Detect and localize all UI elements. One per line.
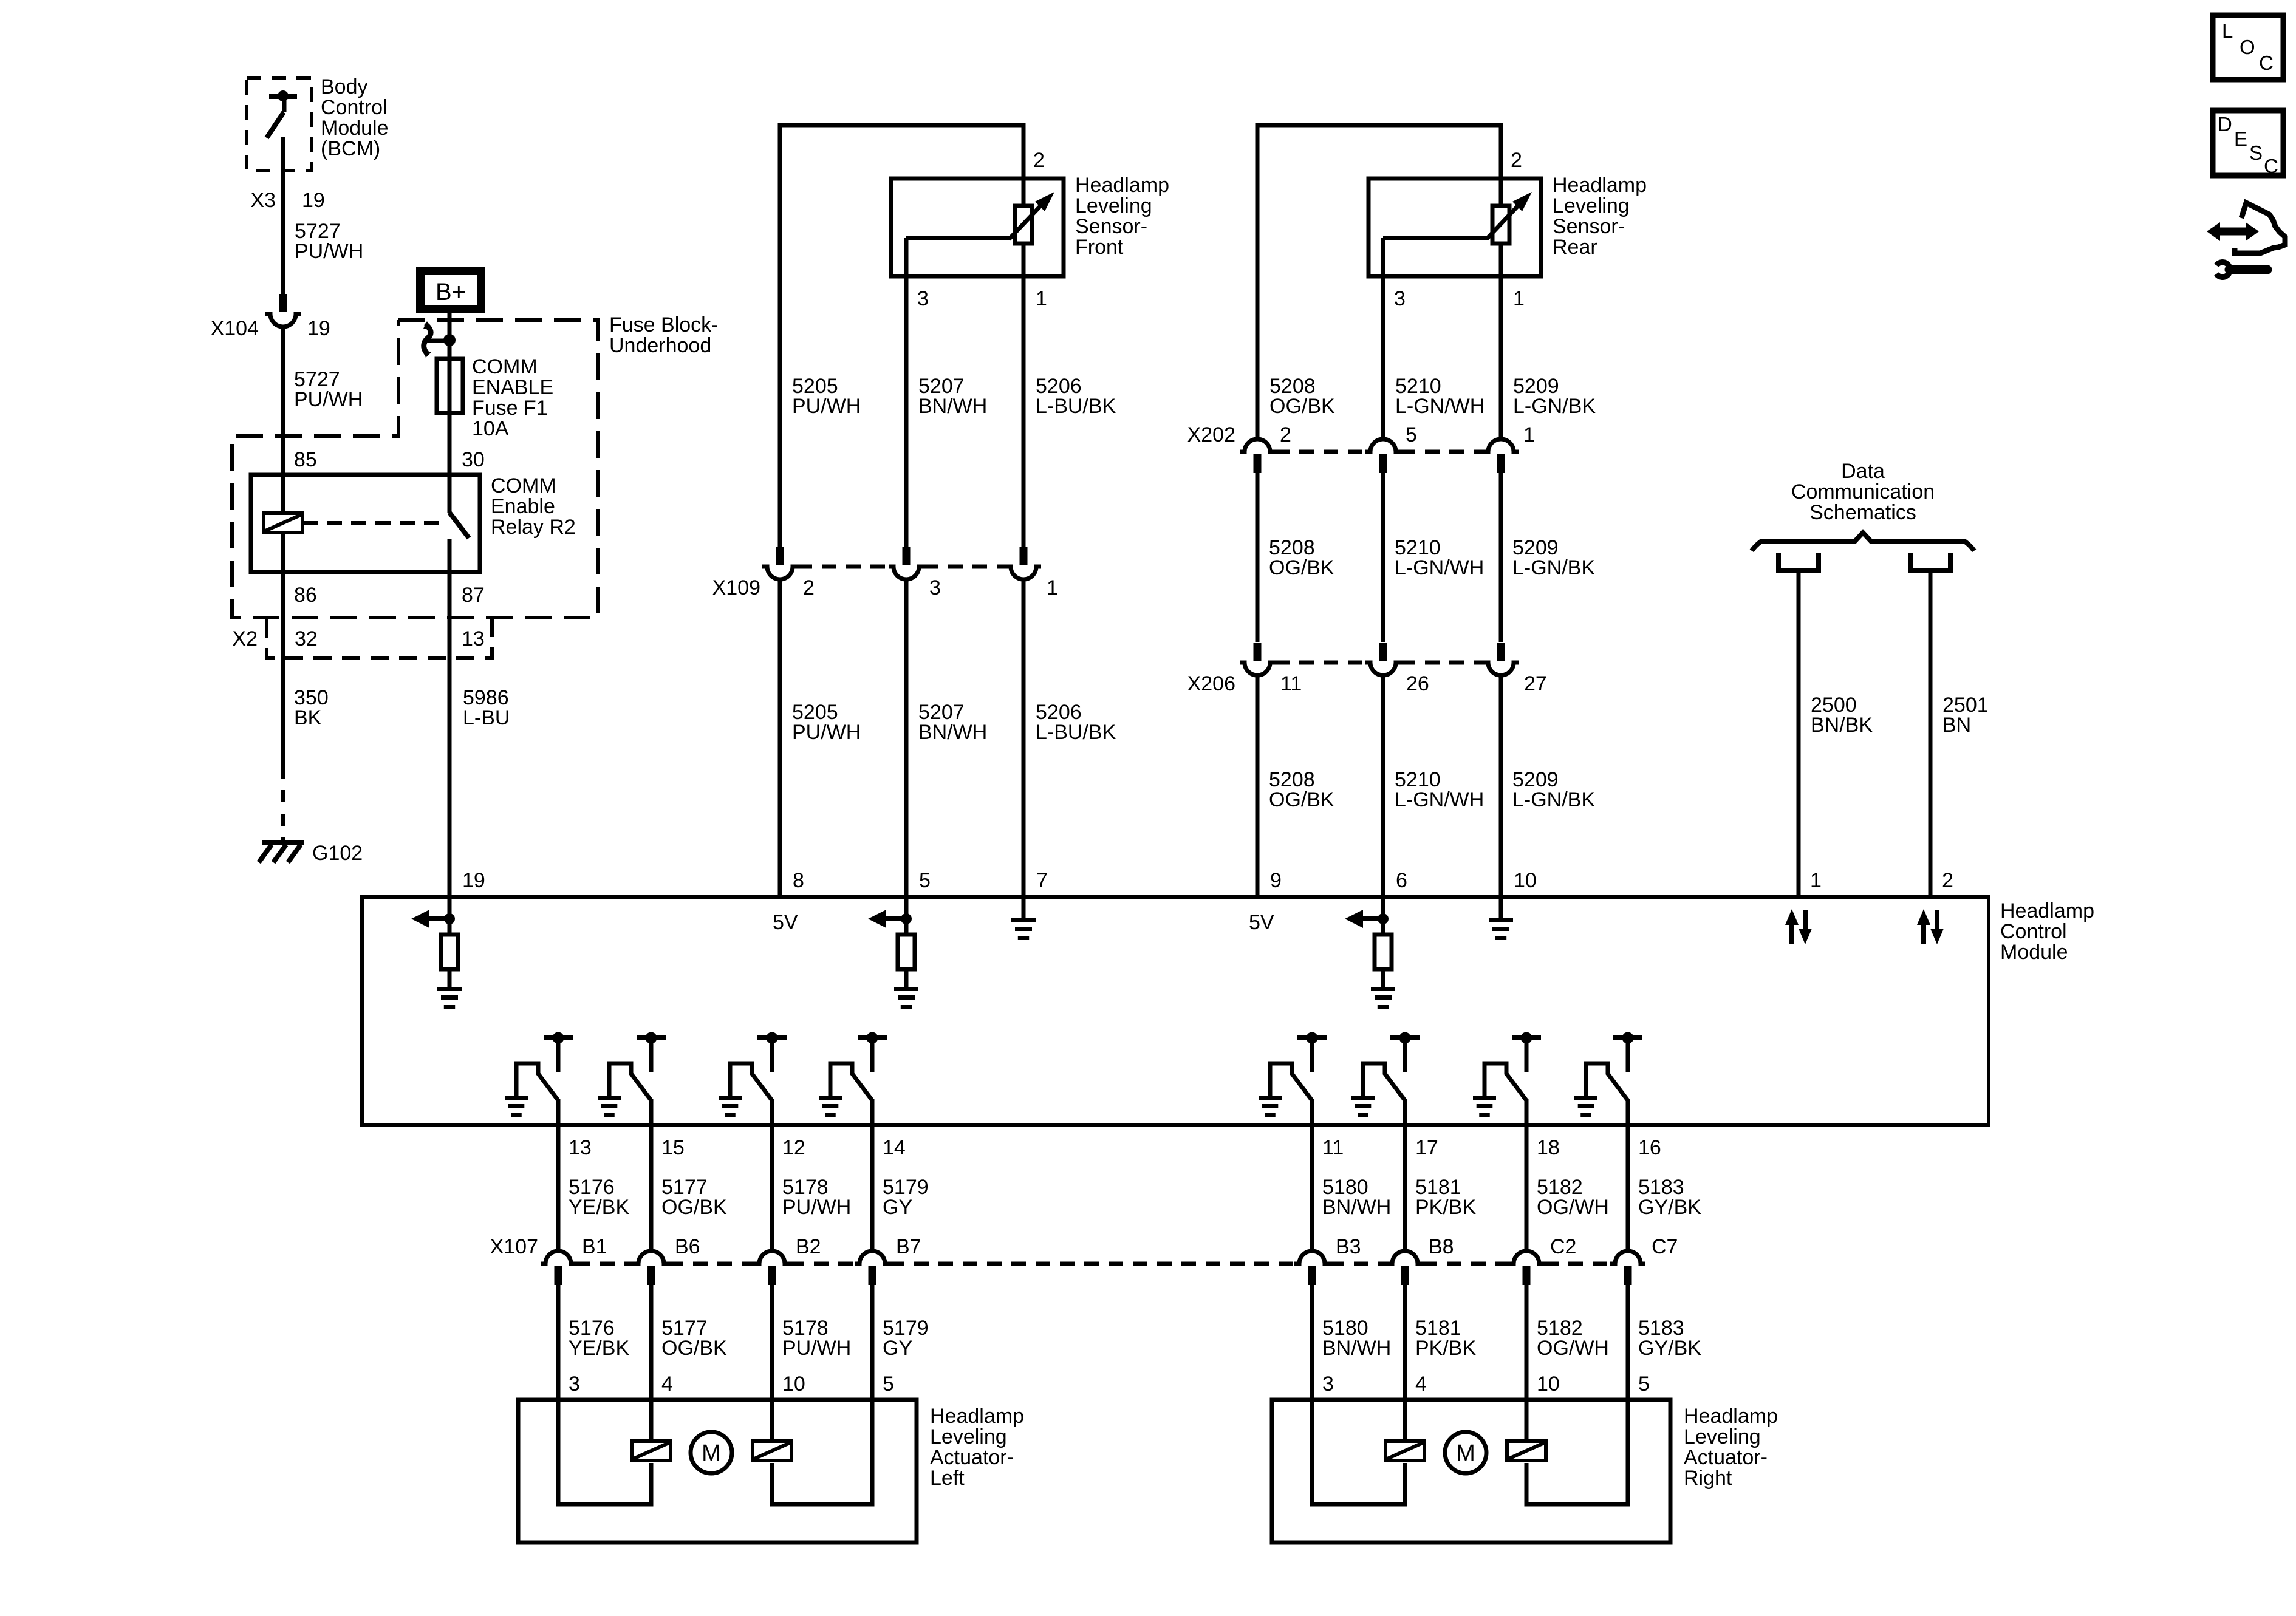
svg-text:OG/WH: OG/WH bbox=[1537, 1337, 1609, 1360]
svg-text:OG/BK: OG/BK bbox=[661, 1196, 727, 1219]
svg-text:S: S bbox=[2249, 141, 2263, 164]
svg-text:PU/WH: PU/WH bbox=[792, 395, 861, 418]
svg-text:Fuse F1: Fuse F1 bbox=[472, 397, 548, 420]
driver output 15 (transistor switch) bbox=[637, 1035, 666, 1040]
svg-text:Body: Body bbox=[321, 75, 368, 98]
svg-text:13: 13 bbox=[462, 627, 485, 650]
svg-text:Schematics: Schematics bbox=[1809, 501, 1916, 524]
wire relay 86 to X2 bbox=[281, 572, 285, 618]
svg-text:C7: C7 bbox=[1652, 1235, 1678, 1258]
svg-text:Module: Module bbox=[321, 117, 389, 140]
wire 5183 lower bbox=[1626, 1285, 1630, 1400]
connector X107 cavity C7 bbox=[1610, 1251, 1645, 1264]
driver output 12 (transistor switch) bbox=[757, 1035, 787, 1040]
wire: front sensor top link bbox=[780, 123, 1023, 128]
connector X107 cavity B3 bbox=[1294, 1251, 1330, 1264]
connector X202 pin2 bbox=[1240, 439, 1275, 452]
svg-text:30: 30 bbox=[462, 448, 485, 471]
actuator: Headlamp Leveling Actuator-Left box bbox=[518, 1400, 917, 1543]
potentiometer front sensor bbox=[1015, 206, 1032, 244]
svg-text:26: 26 bbox=[1406, 672, 1429, 695]
svg-text:B6: B6 bbox=[675, 1235, 700, 1258]
svg-text:COMM: COMM bbox=[491, 474, 556, 497]
svg-text:BK: BK bbox=[294, 706, 322, 729]
driver output 16 (transistor switch) bbox=[1613, 1035, 1642, 1040]
svg-text:1: 1 bbox=[1523, 423, 1535, 446]
svg-text:X109: X109 bbox=[712, 576, 760, 599]
svg-text:X2: X2 bbox=[232, 627, 258, 650]
wire 5209 to module pin 10 bbox=[1499, 675, 1503, 897]
wire rear pin3 bbox=[1381, 238, 1385, 439]
svg-text:PU/WH: PU/WH bbox=[792, 721, 861, 744]
wire 5205 to module pin 8 bbox=[778, 579, 782, 897]
svg-text:18: 18 bbox=[1537, 1136, 1560, 1159]
svg-text:BN/WH: BN/WH bbox=[918, 395, 987, 418]
svg-text:B8: B8 bbox=[1429, 1235, 1454, 1258]
connector X109 pin1 bbox=[1020, 547, 1028, 565]
svg-text:11: 11 bbox=[1280, 672, 1302, 695]
svg-text:M: M bbox=[1456, 1440, 1475, 1466]
svg-text:85: 85 bbox=[294, 448, 317, 471]
svg-text:Headlamp: Headlamp bbox=[1553, 174, 1647, 197]
svg-text:ENABLE: ENABLE bbox=[472, 376, 553, 399]
svg-text:2: 2 bbox=[1942, 869, 1953, 892]
wire 5176 lower bbox=[556, 1285, 561, 1400]
icon: LOC box bbox=[2213, 15, 2283, 80]
svg-text:Relay R2: Relay R2 bbox=[491, 516, 576, 539]
svg-text:5: 5 bbox=[1638, 1372, 1650, 1396]
wire B+ to fuse bbox=[448, 313, 452, 359]
wire 350 BK bbox=[281, 658, 285, 766]
wire X2-13 through box bbox=[448, 618, 452, 658]
driver output 18 (transistor switch) bbox=[1512, 1035, 1541, 1040]
svg-text:11: 11 bbox=[1322, 1136, 1344, 1159]
svg-text:3: 3 bbox=[1394, 287, 1406, 310]
svg-text:L-GN/WH: L-GN/WH bbox=[1395, 395, 1485, 418]
svg-text:Module: Module bbox=[2000, 941, 2068, 964]
svg-text:Front: Front bbox=[1075, 236, 1124, 259]
switch inside BCM bbox=[269, 94, 297, 99]
svg-text:X3: X3 bbox=[250, 189, 276, 212]
svg-text:PU/WH: PU/WH bbox=[295, 240, 363, 263]
svg-text:Rear: Rear bbox=[1553, 236, 1597, 259]
module: Body Control Module (BCM) dashed box bbox=[247, 78, 312, 171]
svg-text:87: 87 bbox=[462, 584, 485, 607]
svg-text:B7: B7 bbox=[896, 1235, 921, 1258]
svg-text:1: 1 bbox=[1036, 287, 1047, 310]
module pin 6 internals bbox=[1381, 897, 1385, 935]
take-out hook symbol at B+ wire bbox=[443, 334, 456, 346]
svg-text:L: L bbox=[2222, 19, 2233, 42]
wire: rear sensor top link bbox=[1257, 123, 1501, 128]
dashed link X202 bbox=[1275, 450, 1365, 454]
wire 5208 mid bbox=[1256, 473, 1260, 642]
wire front pin3 bbox=[904, 238, 909, 547]
svg-text:Control: Control bbox=[321, 96, 388, 119]
svg-text:1: 1 bbox=[1513, 287, 1525, 310]
wire 5210 to module pin 6 bbox=[1381, 675, 1385, 897]
svg-text:4: 4 bbox=[661, 1372, 673, 1396]
connector X107 cavity B8 bbox=[1387, 1251, 1423, 1264]
svg-text:Actuator-: Actuator- bbox=[1684, 1446, 1768, 1469]
wire 5180 lower bbox=[1310, 1285, 1314, 1400]
connector X202 pin1 bbox=[1483, 439, 1519, 452]
driver output 17 (transistor switch) bbox=[1390, 1035, 1420, 1040]
module pin 1 serial data arrows bbox=[1789, 924, 1794, 944]
svg-text:PK/BK: PK/BK bbox=[1415, 1196, 1476, 1219]
svg-text:3: 3 bbox=[569, 1372, 580, 1396]
connector X109 pin3 bbox=[903, 547, 911, 565]
svg-text:GY: GY bbox=[883, 1337, 912, 1360]
svg-text:6: 6 bbox=[1396, 869, 1407, 892]
svg-text:L-GN/WH: L-GN/WH bbox=[1395, 556, 1484, 579]
svg-text:10: 10 bbox=[782, 1372, 805, 1396]
svg-text:Actuator-: Actuator- bbox=[930, 1446, 1014, 1469]
driver output 13 (transistor switch) bbox=[544, 1035, 573, 1040]
box: Headlamp Leveling Sensor-Front bbox=[891, 179, 1064, 276]
connector X2 dashed box bbox=[267, 619, 492, 658]
wire 5206 to module pin 7 bbox=[1022, 579, 1026, 897]
svg-text:C: C bbox=[2264, 155, 2278, 177]
svg-text:5: 5 bbox=[1406, 423, 1417, 446]
svg-text:B3: B3 bbox=[1336, 1235, 1361, 1258]
connector X206 pin11 bbox=[1254, 643, 1262, 661]
svg-text:Leveling: Leveling bbox=[1553, 194, 1630, 217]
actuator: Headlamp Leveling Actuator-Right box bbox=[1272, 1400, 1670, 1543]
svg-text:BN/WH: BN/WH bbox=[918, 721, 987, 744]
svg-text:10: 10 bbox=[1537, 1372, 1560, 1396]
svg-text:1: 1 bbox=[1047, 576, 1058, 599]
wire rear pin1 bbox=[1499, 244, 1503, 439]
wire 5727 PU/WH below X104 bbox=[281, 327, 285, 477]
svg-text:2: 2 bbox=[803, 576, 815, 599]
svg-text:PU/WH: PU/WH bbox=[294, 388, 363, 411]
svg-text:L-GN/BK: L-GN/BK bbox=[1512, 556, 1595, 579]
svg-text:B1: B1 bbox=[582, 1235, 607, 1258]
module pin 10 ground bbox=[1499, 897, 1503, 918]
svg-text:L-GN/WH: L-GN/WH bbox=[1395, 788, 1484, 811]
svg-text:G102: G102 bbox=[312, 842, 363, 865]
svg-text:OG/BK: OG/BK bbox=[1269, 556, 1334, 579]
svg-text:5V: 5V bbox=[1249, 911, 1274, 934]
svg-text:Communication: Communication bbox=[1791, 480, 1935, 503]
connector X202 pin5 bbox=[1365, 439, 1401, 452]
svg-text:5: 5 bbox=[919, 869, 931, 892]
svg-text:D: D bbox=[2218, 113, 2232, 135]
wire 5210 mid bbox=[1381, 473, 1385, 642]
connector X107 cavity B1 bbox=[541, 1251, 576, 1264]
svg-text:YE/BK: YE/BK bbox=[569, 1337, 629, 1360]
svg-text:19: 19 bbox=[302, 189, 325, 212]
wire fuse to relay pin 30 bbox=[448, 413, 452, 477]
wire 350 BK dashed segment bbox=[281, 766, 285, 841]
wire X2-32 through box bbox=[281, 618, 285, 658]
svg-text:Left: Left bbox=[930, 1467, 965, 1490]
svg-text:3: 3 bbox=[929, 576, 941, 599]
svg-text:Sensor-: Sensor- bbox=[1553, 215, 1625, 238]
wire 5207 to module pin 5 bbox=[904, 579, 909, 897]
connector X107 cavity C2 bbox=[1509, 1251, 1544, 1264]
svg-text:O: O bbox=[2240, 36, 2255, 58]
svg-text:M: M bbox=[702, 1440, 721, 1466]
svg-text:Data: Data bbox=[1841, 460, 1885, 483]
svg-text:Headlamp: Headlamp bbox=[1075, 174, 1169, 197]
wire 5181 lower bbox=[1403, 1285, 1407, 1400]
svg-text:27: 27 bbox=[1524, 672, 1547, 695]
wire 5182 lower bbox=[1525, 1285, 1529, 1400]
svg-text:OG/BK: OG/BK bbox=[661, 1337, 727, 1360]
svg-text:8: 8 bbox=[793, 869, 804, 892]
svg-text:X202: X202 bbox=[1187, 423, 1235, 446]
dashed link X109 bbox=[798, 565, 889, 569]
svg-text:7: 7 bbox=[1036, 869, 1048, 892]
svg-text:C: C bbox=[2259, 52, 2274, 74]
connector X109 pin2 bbox=[776, 547, 784, 565]
off-page connector (2501) bbox=[1910, 553, 1950, 571]
svg-text:E: E bbox=[2234, 128, 2247, 150]
driver output 14 (transistor switch) bbox=[858, 1035, 887, 1040]
svg-text:Sensor-: Sensor- bbox=[1075, 215, 1147, 238]
svg-text:19: 19 bbox=[307, 317, 330, 340]
svg-text:X104: X104 bbox=[211, 317, 259, 340]
icon: vehicle outline with double arrow bbox=[2235, 203, 2285, 253]
svg-text:BN/BK: BN/BK bbox=[1811, 714, 1873, 737]
svg-text:OG/WH: OG/WH bbox=[1537, 1196, 1609, 1219]
svg-text:Leveling: Leveling bbox=[1075, 194, 1152, 217]
svg-text:L-GN/BK: L-GN/BK bbox=[1513, 395, 1596, 418]
driver output 11 (transistor switch) bbox=[1297, 1035, 1327, 1040]
box: Headlamp Leveling Sensor-Rear bbox=[1368, 179, 1541, 276]
svg-text:Leveling: Leveling bbox=[930, 1425, 1007, 1448]
svg-text:OG/BK: OG/BK bbox=[1269, 395, 1335, 418]
svg-text:2: 2 bbox=[1033, 149, 1045, 172]
svg-text:Leveling: Leveling bbox=[1684, 1425, 1761, 1448]
svg-text:15: 15 bbox=[661, 1136, 685, 1159]
box: Fuse Block-Underhood (dashed outline) bbox=[232, 320, 598, 618]
svg-text:GY: GY bbox=[883, 1196, 912, 1219]
svg-text:3: 3 bbox=[917, 287, 929, 310]
connector X107 cavity B2 bbox=[754, 1251, 790, 1264]
wire relay 87 to X2 bbox=[448, 572, 452, 618]
relay R2 box bbox=[251, 475, 480, 572]
wire 5209 mid bbox=[1499, 473, 1503, 642]
wire 2501 BN bbox=[1929, 573, 1933, 897]
svg-text:32: 32 bbox=[295, 627, 318, 650]
svg-text:BN/WH: BN/WH bbox=[1322, 1196, 1391, 1219]
svg-text:4: 4 bbox=[1415, 1372, 1427, 1396]
dashed link X206 bbox=[1275, 661, 1365, 665]
svg-text:12: 12 bbox=[782, 1136, 805, 1159]
relay switch bbox=[448, 475, 452, 513]
svg-text:Enable: Enable bbox=[491, 495, 555, 518]
icon: wrench bbox=[2229, 265, 2267, 274]
svg-text:Fuse Block-: Fuse Block- bbox=[609, 313, 719, 336]
svg-text:B+: B+ bbox=[436, 279, 466, 305]
svg-text:9: 9 bbox=[1270, 869, 1282, 892]
module pin 19 internals (arrow/resistor/ground) bbox=[448, 897, 452, 935]
module pin 7 ground bbox=[1022, 897, 1026, 918]
off-page connector (2500) bbox=[1778, 553, 1819, 571]
dashed link X107 row bbox=[576, 1262, 634, 1266]
potentiometer rear sensor bbox=[1492, 206, 1509, 244]
module pin 5 internals bbox=[904, 897, 909, 935]
connector X104 (inline) bbox=[279, 294, 287, 312]
wire 2500 BN/BK bbox=[1797, 573, 1801, 897]
connector X107 cavity B6 bbox=[634, 1251, 669, 1264]
svg-text:L-BU: L-BU bbox=[463, 706, 510, 729]
ground G102 (chassis) bbox=[262, 840, 304, 845]
svg-text:GY/BK: GY/BK bbox=[1638, 1196, 1701, 1219]
relay coil bbox=[281, 475, 285, 514]
svg-text:OG/BK: OG/BK bbox=[1269, 788, 1334, 811]
svg-text:10A: 10A bbox=[472, 417, 509, 440]
svg-text:Headlamp: Headlamp bbox=[2000, 899, 2094, 922]
svg-text:Right: Right bbox=[1684, 1467, 1732, 1490]
svg-text:PU/WH: PU/WH bbox=[782, 1337, 851, 1360]
svg-text:10: 10 bbox=[1514, 869, 1537, 892]
svg-text:16: 16 bbox=[1638, 1136, 1661, 1159]
svg-text:PU/WH: PU/WH bbox=[782, 1196, 851, 1219]
svg-text:14: 14 bbox=[883, 1136, 906, 1159]
svg-text:(BCM): (BCM) bbox=[321, 137, 380, 160]
svg-text:C2: C2 bbox=[1550, 1235, 1576, 1258]
svg-text:B2: B2 bbox=[796, 1235, 821, 1258]
wire: BCM lower contact to X3/X104 bbox=[281, 137, 285, 294]
svg-text:17: 17 bbox=[1415, 1136, 1438, 1159]
svg-text:Control: Control bbox=[2000, 920, 2067, 943]
svg-text:Headlamp: Headlamp bbox=[930, 1405, 1024, 1428]
svg-text:5: 5 bbox=[883, 1372, 894, 1396]
svg-text:COMM: COMM bbox=[472, 355, 538, 378]
connector X206 pin27 bbox=[1497, 643, 1505, 661]
fuse COMM ENABLE F1 10A bbox=[437, 359, 463, 413]
relay coil-switch dashed link bbox=[302, 521, 447, 525]
svg-text:X107: X107 bbox=[490, 1235, 538, 1258]
svg-text:13: 13 bbox=[569, 1136, 592, 1159]
svg-text:Underhood: Underhood bbox=[609, 334, 711, 357]
svg-text:3: 3 bbox=[1322, 1372, 1334, 1396]
wire 5179 lower bbox=[870, 1285, 875, 1400]
svg-text:PK/BK: PK/BK bbox=[1415, 1337, 1476, 1360]
wire front pin1 bbox=[1022, 244, 1026, 547]
svg-text:2: 2 bbox=[1511, 149, 1522, 172]
wire 5986 L-BU bbox=[448, 658, 452, 897]
svg-text:L-BU/BK: L-BU/BK bbox=[1036, 395, 1116, 418]
brace (data communication) bbox=[1752, 533, 1974, 551]
B+ battery feed box bbox=[420, 271, 481, 309]
svg-text:19: 19 bbox=[462, 869, 485, 892]
connector X206 pin26 bbox=[1379, 643, 1387, 661]
connector X107 cavity B7 bbox=[855, 1251, 890, 1264]
svg-text:YE/BK: YE/BK bbox=[569, 1196, 629, 1219]
icon: DESC box bbox=[2213, 111, 2283, 176]
svg-text:L-BU/BK: L-BU/BK bbox=[1036, 721, 1116, 744]
module pin 2 serial data arrows bbox=[1921, 924, 1926, 944]
svg-text:1: 1 bbox=[1810, 869, 1822, 892]
svg-text:BN: BN bbox=[1942, 714, 1971, 737]
wire 5177 lower bbox=[649, 1285, 654, 1400]
svg-text:GY/BK: GY/BK bbox=[1638, 1337, 1701, 1360]
svg-text:2: 2 bbox=[1280, 423, 1291, 446]
module: Headlamp Control Module box bbox=[362, 897, 1989, 1125]
svg-text:X206: X206 bbox=[1187, 672, 1235, 695]
wire 5208 to module pin 9 bbox=[1256, 675, 1260, 897]
svg-text:86: 86 bbox=[294, 584, 317, 607]
svg-text:L-GN/BK: L-GN/BK bbox=[1512, 788, 1595, 811]
wire 5178 lower bbox=[770, 1285, 774, 1400]
svg-text:BN/WH: BN/WH bbox=[1322, 1337, 1391, 1360]
svg-text:Headlamp: Headlamp bbox=[1684, 1405, 1778, 1428]
svg-text:5V: 5V bbox=[773, 911, 798, 934]
